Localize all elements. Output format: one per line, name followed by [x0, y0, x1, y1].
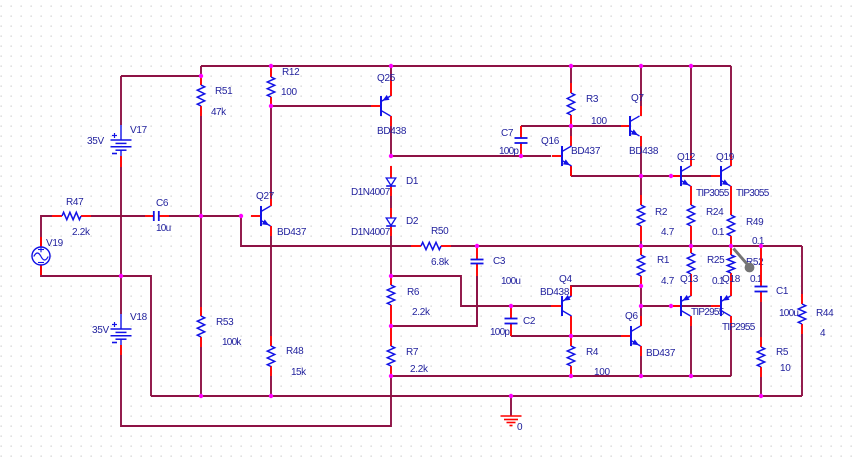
wire Q6 emitter drop — [640, 356, 642, 376]
svg-text:C3: C3 — [493, 256, 506, 267]
resistor R4 100 — [567, 336, 610, 378]
wire Q27 collector column — [270, 106, 272, 196]
svg-text:100u: 100u — [501, 276, 520, 287]
wire Q16 collector link — [570, 126, 572, 136]
wire R24 link — [690, 240, 692, 246]
wire diode chain links — [390, 196, 392, 276]
svg-text:D1: D1 — [406, 176, 419, 187]
svg-text:R4: R4 — [586, 347, 599, 358]
wire R12 bottom to Q25 base — [271, 105, 371, 107]
svg-text:100: 100 — [281, 87, 298, 98]
svg-text:BD438: BD438 — [377, 126, 407, 137]
svg-text:R3: R3 — [586, 94, 599, 105]
svg-text:R53: R53 — [216, 317, 234, 328]
svg-text:4: 4 — [820, 328, 826, 339]
svg-text:Q12: Q12 — [677, 152, 696, 163]
transistor Q4 BD438 — [540, 274, 572, 336]
svg-text:R7: R7 — [406, 347, 419, 358]
diode D2 D1N4007 — [351, 208, 419, 238]
junction at 271,396 — [269, 394, 273, 398]
junction at 477,246 — [475, 244, 479, 248]
resistor R53 100k — [197, 307, 242, 348]
wire Q13 collector drop — [690, 326, 692, 376]
svg-text:R47: R47 — [66, 197, 84, 208]
resistor R7 2.2k — [387, 326, 429, 376]
junction at 201,76 — [199, 74, 203, 78]
junction at 731,246 — [729, 244, 733, 248]
transistor Q12 TIP3055 — [671, 152, 730, 205]
svg-text:4.7: 4.7 — [661, 276, 675, 287]
wire C1-R5 link — [760, 302, 762, 337]
svg-text:0: 0 — [517, 422, 523, 433]
resistor R47 2.2k — [52, 197, 91, 238]
resistor R51 47k — [197, 76, 233, 118]
wire ground rail — [151, 395, 802, 397]
junction at 761,246 — [759, 244, 763, 248]
junction at 641,66 — [639, 64, 643, 68]
diode D1 D1N4007 — [351, 166, 419, 198]
wire Q7 collector column — [640, 66, 642, 176]
wire Q18 collector drop — [730, 326, 732, 376]
svg-text:R44: R44 — [816, 308, 834, 319]
transistor Q7 BD438 — [621, 93, 659, 157]
wire Q25 collector drop — [390, 66, 392, 156]
wire V18 minus bottom run — [121, 355, 391, 426]
resistor R6 2.2k — [387, 276, 431, 326]
resistor R48 15k — [267, 336, 307, 378]
junction at 271,106 — [269, 104, 273, 108]
junction at 121,276 — [119, 274, 123, 278]
svg-text:C2: C2 — [523, 316, 536, 327]
transistor Q18 TIP2955 — [711, 274, 756, 333]
svg-text:47k: 47k — [211, 107, 227, 118]
svg-text:R1: R1 — [657, 255, 670, 266]
wire output rail — [241, 216, 802, 246]
junction at 271,66 — [269, 64, 273, 68]
svg-text:Q4: Q4 — [559, 274, 572, 285]
battery V18 35V — [92, 276, 148, 355]
resistor R12 100 — [267, 66, 300, 106]
wire Q4 emitter to driver node — [571, 286, 641, 296]
svg-text:4.7: 4.7 — [661, 227, 675, 238]
junction at 391,376 — [389, 374, 393, 378]
wire Q12 collector column — [690, 66, 692, 156]
wire C7 top / R3 bottom to Q7 base — [521, 125, 621, 127]
svg-text:C1: C1 — [776, 286, 789, 297]
junction at 641,246 — [639, 244, 643, 248]
svg-text:TIP3055: TIP3055 — [696, 188, 730, 199]
junction at 691,376 — [689, 374, 693, 378]
svg-text:100: 100 — [594, 367, 611, 378]
svg-text:D1N4007: D1N4007 — [351, 187, 391, 198]
wire C2 bottom to Q6 base — [511, 335, 621, 337]
svg-text:0.1: 0.1 — [712, 227, 725, 238]
voltage source V19 — [32, 237, 64, 275]
junction at 671,306 — [669, 304, 673, 308]
svg-text:6.8k: 6.8k — [431, 257, 450, 268]
junction at 571,336 — [569, 334, 573, 338]
svg-text:R5: R5 — [776, 347, 789, 358]
svg-text:R25: R25 — [707, 255, 725, 266]
resistor R49 0.1 — [727, 215, 765, 247]
junction at 201,216 — [199, 214, 203, 218]
svg-text:R49: R49 — [746, 217, 764, 228]
capacitor C7 100p — [499, 126, 528, 157]
resistor R3 100 — [567, 66, 607, 127]
wire V17 top to R51 top — [121, 66, 201, 76]
svg-text:100p: 100p — [499, 146, 519, 157]
resistor R2 4.7 — [637, 195, 674, 241]
junction at 641,286 — [639, 284, 643, 288]
wire supply midpoint node — [41, 265, 151, 396]
wire -35V rail — [391, 375, 731, 377]
wire R6 bottom to C3 bottom — [391, 276, 477, 326]
svg-text:100: 100 — [591, 116, 608, 127]
wire driver node to Q13/Q18 bases — [641, 286, 711, 326]
transistor Q6 BD437 — [621, 311, 676, 359]
svg-text:C7: C7 — [501, 128, 514, 139]
svg-text:100u: 100u — [779, 308, 798, 319]
wire input node — [41, 216, 241, 247]
svg-text:Q27: Q27 — [256, 191, 275, 202]
junction at 571,66 — [569, 64, 573, 68]
svg-text:Q6: Q6 — [625, 311, 638, 322]
junction at 241,216 — [239, 214, 243, 218]
junction at 641,176 — [639, 174, 643, 178]
wire C3 column — [476, 276, 478, 326]
svg-text:Q13: Q13 — [680, 274, 699, 285]
svg-text:Q19: Q19 — [716, 152, 735, 163]
svg-text:R51: R51 — [215, 86, 233, 97]
transistor Q19 TIP3055 — [711, 152, 770, 215]
junction at 671,176 — [669, 174, 673, 178]
svg-text:35V: 35V — [87, 136, 105, 147]
capacitor C6 10u — [145, 198, 171, 234]
transistor Q16 BD437 — [541, 136, 601, 176]
junction at 761,396 — [759, 394, 763, 398]
wire Q25 emitter node to Q16 base — [391, 155, 551, 157]
capacitor C2 100p — [490, 306, 536, 338]
svg-text:Q18: Q18 — [722, 274, 741, 285]
junction at 691,246 — [689, 244, 693, 248]
svg-text:R6: R6 — [407, 287, 420, 298]
svg-text:100p: 100p — [490, 327, 510, 338]
svg-text:Q7: Q7 — [631, 93, 644, 104]
svg-text:R2: R2 — [655, 207, 668, 218]
junction at 201,396 — [199, 394, 203, 398]
wire Q16 emitter to Q12/Q19 bases — [571, 166, 711, 176]
svg-text:BD437: BD437 — [646, 348, 676, 359]
resistor R1 4.7 — [637, 246, 674, 287]
wire R51-R53 column — [200, 116, 202, 396]
transistor Q25 BD438 — [371, 73, 407, 137]
junction at 571,376 — [569, 374, 573, 378]
svg-text:2.2k: 2.2k — [72, 227, 91, 238]
capacitor C1 100u — [755, 246, 799, 319]
svg-text:V18: V18 — [130, 312, 148, 323]
junction at 391,66 — [389, 64, 393, 68]
junction at 511,396 — [509, 394, 513, 398]
junction at 521,156 — [519, 154, 523, 158]
junction at 391,326 — [389, 324, 393, 328]
svg-text:BD437: BD437 — [277, 227, 307, 238]
resistor R25 0.1 — [687, 246, 725, 296]
resistor R52 0.1 — [727, 246, 764, 296]
junction at 641,306 — [639, 304, 643, 308]
svg-text:R48: R48 — [286, 346, 304, 357]
junction at 571,126 — [569, 124, 573, 128]
svg-text:Q16: Q16 — [541, 136, 560, 147]
svg-text:15k: 15k — [291, 367, 307, 378]
wire Q27 emitter to R48 — [270, 236, 272, 396]
svg-text:2.2k: 2.2k — [412, 307, 431, 318]
svg-text:10u: 10u — [156, 223, 171, 234]
svg-text:2.2k: 2.2k — [410, 364, 429, 375]
svg-text:C6: C6 — [156, 198, 169, 209]
svg-text:R12: R12 — [282, 67, 300, 78]
svg-text:BD438: BD438 — [629, 146, 659, 157]
svg-text:D2: D2 — [406, 216, 419, 227]
svg-text:TIP2955: TIP2955 — [722, 322, 756, 333]
svg-text:R24: R24 — [706, 207, 724, 218]
svg-text:Q25: Q25 — [377, 73, 396, 84]
svg-text:D1N4007: D1N4007 — [351, 227, 391, 238]
junction at 641,376 — [639, 374, 643, 378]
wire R2 links — [640, 176, 642, 246]
junction at 391,276 — [389, 274, 393, 278]
ground 0 — [501, 396, 524, 433]
junction at 511,306 — [509, 304, 513, 308]
svg-text:10: 10 — [780, 363, 791, 374]
svg-text:BD437: BD437 — [571, 146, 601, 157]
wire +35V top rail — [201, 65, 731, 67]
svg-text:100k: 100k — [222, 337, 242, 348]
junction at 691,66 — [689, 64, 693, 68]
transistor Q27 BD437 — [251, 191, 307, 238]
svg-text:R50: R50 — [431, 226, 449, 237]
battery V17 35V — [87, 76, 148, 167]
svg-text:TIP2955: TIP2955 — [691, 307, 725, 318]
capacitor C3 100u — [471, 246, 521, 287]
wire V17 minus to node — [120, 167, 122, 276]
resistor R24 0.1 — [687, 205, 725, 240]
svg-text:35V: 35V — [92, 325, 110, 336]
resistor R44 4 — [798, 294, 834, 339]
svg-text:V19: V19 — [46, 238, 64, 249]
wire bias to Q4 base jog — [391, 276, 551, 306]
transistor Q13 TIP2955 — [671, 274, 725, 326]
svg-text:BD438: BD438 — [540, 287, 570, 298]
mouse cursor — [734, 249, 755, 273]
resistor R50 6.8k — [411, 226, 451, 268]
junction at 391,156 — [389, 154, 393, 158]
wire Q19 collector column — [730, 66, 732, 156]
resistor R5 10 — [757, 337, 791, 396]
svg-text:V17: V17 — [130, 125, 148, 136]
svg-text:TIP3055: TIP3055 — [736, 188, 770, 199]
wire output to R44 drop — [801, 246, 803, 396]
